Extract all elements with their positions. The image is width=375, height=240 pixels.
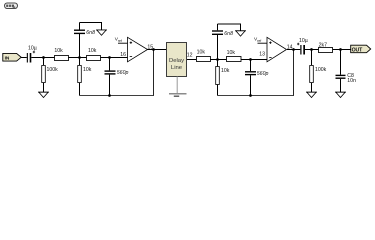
resistor R1 10k xyxy=(54,48,68,60)
capacitor 6n8 #2 xyxy=(212,24,233,60)
Delay Line block xyxy=(167,43,187,77)
svg-text:10k: 10k xyxy=(197,50,206,56)
resistor 10k feedback vertical #2 xyxy=(216,60,230,96)
ground xyxy=(335,92,346,97)
svg-text:ref: ref xyxy=(118,39,122,43)
Vref label 2 xyxy=(254,37,267,44)
op-amp U1 xyxy=(128,37,148,62)
wire cap top to ground xyxy=(80,23,102,31)
delay line ground stub (grey) xyxy=(169,77,187,97)
node C2 xyxy=(310,48,313,51)
svg-text:560p: 560p xyxy=(117,70,129,76)
wire R4 to R5 xyxy=(210,59,226,61)
svg-text:10n: 10n xyxy=(347,78,356,84)
node B2 xyxy=(249,58,252,61)
wire 2k7 to OUT xyxy=(333,49,351,51)
resistor R2 10k xyxy=(87,48,101,60)
node B xyxy=(108,56,111,59)
svg-text:10k: 10k xyxy=(83,67,92,73)
logo badge top-left xyxy=(5,3,18,9)
svg-text:10µ: 10µ xyxy=(28,45,37,51)
OUT tag xyxy=(351,45,371,53)
junction node in xyxy=(42,56,45,59)
resistor 10k feedback vertical xyxy=(78,58,92,96)
node A2 xyxy=(216,58,219,61)
wire R1 to R2 xyxy=(68,57,86,59)
pin 14 / output wire xyxy=(287,49,300,51)
junction rail xyxy=(108,94,111,97)
node D2 xyxy=(339,48,342,51)
capacitor C1 10u xyxy=(27,45,37,62)
svg-text:OUT: OUT xyxy=(352,47,364,53)
svg-text:10k: 10k xyxy=(227,50,236,56)
svg-text:10k: 10k xyxy=(88,48,97,54)
resistor R5 10k xyxy=(227,50,242,62)
resistor 2k7 xyxy=(319,42,333,52)
output junction xyxy=(152,48,155,51)
ground xyxy=(96,30,107,35)
ground xyxy=(38,92,49,97)
wire R2 to opamp xyxy=(101,57,128,59)
capacitor 560p #2 xyxy=(245,60,268,96)
feedback rail stage 2 xyxy=(218,50,294,96)
Vref label 1 xyxy=(115,37,128,44)
svg-text:2k7: 2k7 xyxy=(319,42,327,48)
svg-text:100k: 100k xyxy=(315,67,327,73)
resistor R4 10k xyxy=(197,50,211,62)
capacitor C8 10n xyxy=(336,50,357,93)
capacitor 10u output xyxy=(297,38,308,55)
svg-text:Delay: Delay xyxy=(169,58,184,64)
svg-text:14: 14 xyxy=(287,44,293,50)
svg-text:13: 13 xyxy=(259,52,265,58)
svg-text:16: 16 xyxy=(120,52,126,58)
output junction 2 xyxy=(292,48,295,51)
svg-text:6n8: 6n8 xyxy=(86,30,95,36)
capacitor 6n8 (node A to gnd) xyxy=(74,23,95,58)
wire IN to C1 xyxy=(21,57,27,59)
svg-text:Line: Line xyxy=(171,65,183,71)
svg-text:100k: 100k xyxy=(47,67,59,73)
feedback rail stage 1 xyxy=(80,50,154,96)
resistor 100k #2 xyxy=(310,50,327,93)
svg-text:IN: IN xyxy=(5,55,10,61)
wire cap2 top to ground xyxy=(218,24,241,31)
svg-text:10k: 10k xyxy=(221,68,230,74)
IN tag xyxy=(3,53,21,61)
op-amp U2 xyxy=(267,37,287,62)
svg-text:10k: 10k xyxy=(54,48,63,54)
pin 12 wire xyxy=(187,59,196,61)
pin 15 / output wire xyxy=(148,49,167,51)
svg-text:6n8: 6n8 xyxy=(224,31,233,37)
resistor 100k (input bias) xyxy=(42,58,58,93)
svg-text:560p: 560p xyxy=(257,71,269,77)
wire R5 to opamp2 xyxy=(241,59,267,61)
junction rail 2 xyxy=(249,94,252,97)
ground xyxy=(235,31,246,36)
capacitor 560p (node B to feedback rail) xyxy=(105,58,129,96)
wire cap to 2k7 xyxy=(305,49,319,51)
ground xyxy=(306,92,317,97)
wire C1 to R1 xyxy=(31,57,54,59)
svg-text:12: 12 xyxy=(187,52,193,58)
node A xyxy=(78,56,81,59)
svg-text:ref: ref xyxy=(257,39,261,43)
svg-text:10µ: 10µ xyxy=(299,38,308,44)
